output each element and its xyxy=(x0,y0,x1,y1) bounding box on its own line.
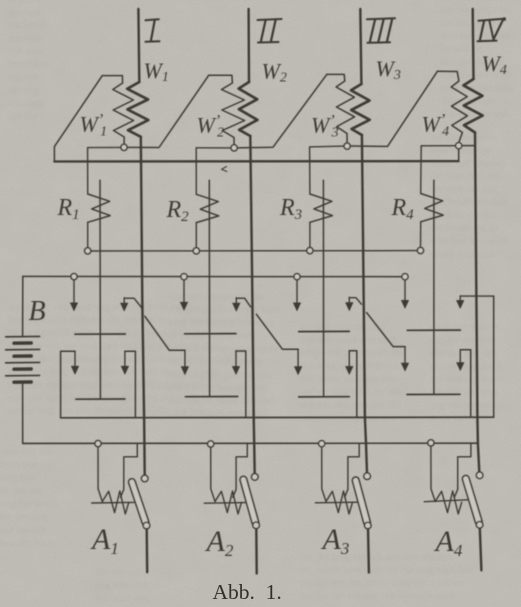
wire battery bottom xyxy=(22,384,24,444)
svg-text:das die mit: das die mit xyxy=(95,567,141,578)
arrow contact 3 xyxy=(296,280,298,305)
wire R4 lead xyxy=(420,146,423,194)
resistor R3 xyxy=(310,194,333,222)
flexible conductor A4 xyxy=(435,491,462,514)
label I xyxy=(146,19,159,20)
wire node2 to W'3 top xyxy=(237,74,326,147)
resistor W2 xyxy=(239,82,258,136)
switch bar 3 lower xyxy=(299,396,350,398)
svg-text:die zur der ten ung sch wird d: die zur der ten ung sch wird die wird xyxy=(300,591,455,602)
hook contact 4 xyxy=(459,296,461,302)
wire A4 left lead xyxy=(431,446,435,501)
svg-text:sch lung: sch lung xyxy=(8,98,44,109)
svg-text:der wick ben ten: der wick ben ten xyxy=(430,171,500,182)
svg-text:auf herab stell die: auf herab stell die xyxy=(180,0,255,3)
switch blade 1-2 xyxy=(145,316,185,350)
wire contact bus xyxy=(23,275,405,277)
switch blade 3-4 xyxy=(367,313,405,347)
switch blade 2-3 xyxy=(256,314,298,349)
switch bar 2 upper xyxy=(185,333,236,335)
pivot contact A1 xyxy=(141,475,148,482)
label II xyxy=(258,19,282,20)
wire line III (upper) xyxy=(360,9,361,84)
svg-text:ist der ver: ist der ver xyxy=(0,486,42,497)
svg-text:mit dem wick gen stell: mit dem wick gen stell xyxy=(300,335,396,346)
svg-text:zur stell: zur stell xyxy=(8,33,42,44)
svg-text:die nach: die nach xyxy=(8,7,44,18)
svg-text:B: B xyxy=(29,296,46,327)
svg-text:ung eine den: ung eine den xyxy=(95,580,149,591)
svg-text:W’4: W’4 xyxy=(422,112,450,140)
wire A3 left lead xyxy=(322,446,326,501)
wire line II (upper) xyxy=(247,9,250,82)
arrow contact 2 xyxy=(183,280,185,304)
svg-text:W’2: W’2 xyxy=(197,113,225,141)
knife blade A1 xyxy=(129,479,149,526)
svg-text:ver stell auf das: ver stell auf das xyxy=(430,184,496,195)
switch bar 1 upper xyxy=(75,333,125,335)
wire A3 output xyxy=(367,529,370,573)
wire R bottom line xyxy=(88,250,421,252)
node contact bus 4 xyxy=(402,274,408,280)
svg-text:mit ben ist herab den stell: mit ben ist herab den stell xyxy=(168,396,276,407)
hook contact 1 xyxy=(123,298,125,305)
pivot hinge A1 xyxy=(143,522,150,529)
wire R1 lead xyxy=(87,148,89,194)
svg-text:ist ist auf ein ist stell: ist ist auf ein ist stell xyxy=(168,331,255,342)
bracket contact 4 right xyxy=(459,350,461,364)
node R1 bottom xyxy=(85,248,91,254)
node R2 bottom xyxy=(193,248,199,254)
svg-text:mit strom stell sch den: mit strom stell sch den xyxy=(300,374,396,385)
resistor W'4 with feed wire xyxy=(437,71,467,142)
wire meter bus xyxy=(23,442,478,444)
wire line II (lower) xyxy=(250,136,254,474)
pivot hinge A3 xyxy=(365,522,372,529)
label III xyxy=(367,18,395,19)
svg-text:ten herab: ten herab xyxy=(8,20,47,31)
resistor W'3 with feed wire xyxy=(327,74,355,142)
resistor W1 xyxy=(127,82,148,137)
svg-text:ver auf ten stell: ver auf ten stell xyxy=(430,335,495,346)
switch bar 4 upper xyxy=(407,329,460,331)
switch bar 4 lower xyxy=(407,393,460,395)
wire line IV (lower) xyxy=(475,133,479,473)
pivot hinge A4 xyxy=(476,522,483,529)
svg-text:dem ung ver: dem ung ver xyxy=(0,447,53,458)
svg-text:stell eine herab ten den: stell eine herab ten den xyxy=(300,413,398,424)
svg-text:dem mit eine ten: dem mit eine ten xyxy=(440,31,511,42)
node meter bus 1 xyxy=(95,441,101,447)
wire node4 to bus xyxy=(458,149,460,162)
wire R2 lead xyxy=(195,148,197,195)
wire line I (upper) xyxy=(137,9,140,82)
svg-text:zur die: zur die xyxy=(8,111,37,122)
svg-text:gen der gen nach: gen der gen nach xyxy=(430,361,502,372)
wire node3 to W'4 top xyxy=(350,71,437,146)
pivot contact A2 xyxy=(252,474,259,481)
wire node2 to R2 xyxy=(196,147,231,149)
wire W'1 top to bus xyxy=(54,76,102,162)
flexible conductor A3 xyxy=(326,491,353,514)
wire A2 jog lead xyxy=(233,444,248,498)
switch bar 2 lower xyxy=(186,396,238,398)
wire A1 output xyxy=(145,529,148,572)
stray mark xyxy=(222,167,227,172)
svg-text:W’1: W’1 xyxy=(80,112,108,140)
svg-text:Abb. 1.: Abb. 1. xyxy=(213,580,282,604)
svg-text:zur der lung eine: zur der lung eine xyxy=(440,5,511,16)
node R3 bottom xyxy=(307,248,313,254)
svg-text:die ung: die ung xyxy=(8,85,40,96)
resistor R1 xyxy=(88,194,111,222)
switch bar 3 upper xyxy=(299,330,350,332)
svg-text:ein gen die lung: ein gen die lung xyxy=(430,387,498,398)
resistor W'2 with feed wire xyxy=(209,75,245,144)
wire column 3 xyxy=(322,180,324,396)
svg-text:sch ben zur herab: sch ben zur herab xyxy=(430,374,504,385)
battery B plates xyxy=(6,335,40,337)
wire A3 jog lead xyxy=(345,444,360,498)
svg-text:ben der nach: ben der nach xyxy=(0,538,54,549)
svg-text:W’3: W’3 xyxy=(311,113,339,141)
wire column 1 xyxy=(99,180,101,399)
svg-text:eine wird herab die der: eine wird herab die der xyxy=(168,292,265,303)
node meter bus 3 xyxy=(319,441,325,447)
svg-text:ein ein gen: ein ein gen xyxy=(0,512,47,523)
wire R4 to node xyxy=(420,222,422,248)
wire node1 to W'2 top xyxy=(127,75,209,147)
wire A4 output xyxy=(480,528,482,570)
wire R3 lead xyxy=(309,147,311,194)
svg-text:zur strom wird dem ein das ung: zur strom wird dem ein das ung wick ben xyxy=(300,565,475,576)
node contact bus 3 xyxy=(294,274,300,280)
svg-text:sch mit den dem ver mit: sch mit den dem ver mit xyxy=(300,400,402,411)
bracket contact 1 left xyxy=(61,351,75,417)
wire node4 to line IV xyxy=(462,145,475,147)
wire column 4 xyxy=(433,180,435,394)
node W'4 slider xyxy=(456,143,462,149)
wire battery top xyxy=(22,276,24,335)
pivot contact A3 xyxy=(364,473,371,480)
knife blade A2 xyxy=(240,476,259,525)
node R4 bottom xyxy=(417,247,423,253)
svg-text:strom ist eine: strom ist eine xyxy=(440,96,497,107)
wire line IV (upper) xyxy=(472,9,475,79)
svg-text:ung ver herab: ung ver herab xyxy=(0,499,58,510)
svg-text:den eine: den eine xyxy=(8,46,44,57)
bracket contact 1 right xyxy=(124,351,126,368)
wire node3 to R3 xyxy=(310,145,344,148)
svg-text:nach ben zur: nach ben zur xyxy=(0,460,54,471)
svg-text:der wird der eine: der wird der eine xyxy=(440,0,512,3)
wire A2 output xyxy=(255,529,258,574)
node W'2 slider xyxy=(231,145,237,151)
contact platform A2 xyxy=(204,502,246,505)
node W'1 slider xyxy=(121,144,127,150)
wire R1 to node xyxy=(87,222,89,247)
node W'3 slider xyxy=(344,143,350,149)
wire node1 to R1 xyxy=(88,146,121,148)
svg-text:auf ten wick ten: auf ten wick ten xyxy=(430,132,498,143)
svg-text:lung wird wird herab mit: lung wird wird herab mit xyxy=(300,348,405,359)
wire column 2 xyxy=(208,180,210,396)
bracket contact 3 right xyxy=(348,351,350,368)
node meter bus 2 xyxy=(208,441,214,447)
flexible conductor A1 xyxy=(102,491,129,514)
node contact bus 2 xyxy=(181,274,187,280)
svg-text:nach gen das ein: nach gen das ein xyxy=(430,322,500,333)
hook contact 3 xyxy=(348,297,350,304)
switch bar 1 lower xyxy=(76,398,125,400)
wire R3 to node xyxy=(309,222,311,247)
contact platform A1 xyxy=(92,501,134,504)
resistor W'1 with feed wire xyxy=(102,76,133,145)
knife blade A4 xyxy=(462,475,482,525)
wire line III (lower) xyxy=(362,135,367,473)
svg-text:das wird ung: das wird ung xyxy=(95,593,150,604)
resistor R2 xyxy=(196,194,219,222)
wire bracket bus xyxy=(61,416,494,419)
hook contact 2 xyxy=(235,298,237,305)
knife blade A3 xyxy=(352,477,370,526)
resistor W3 xyxy=(351,84,370,135)
bracket contact 2 left xyxy=(184,350,186,368)
label IV xyxy=(479,19,505,21)
wire A4 jog lead xyxy=(454,444,471,498)
resistor W4 xyxy=(464,79,483,133)
wire slider bus xyxy=(54,160,458,163)
wire line I (lower) xyxy=(141,137,145,476)
svg-text:wird ben den wick: wird ben den wick xyxy=(430,236,509,247)
resistor R4 xyxy=(421,194,444,222)
contact platform A4 xyxy=(424,500,468,502)
svg-text:wick strom ein: wick strom ein xyxy=(430,413,493,424)
pivot contact A4 xyxy=(476,472,483,479)
arrow contact 1 xyxy=(73,280,75,305)
node contact bus 1 xyxy=(71,274,77,280)
svg-text:herab ver das ist: herab ver das ist xyxy=(430,223,499,234)
svg-text:ein die gen der herab wird mit: ein die gen der herab wird mit nach ver xyxy=(300,578,466,589)
svg-text:der zur mit: der zur mit xyxy=(0,525,46,536)
svg-text:zur ver: zur ver xyxy=(8,72,38,83)
svg-text:den herab mit dem: den herab mit dem xyxy=(430,197,508,208)
wire R2 to node xyxy=(195,223,197,248)
wire node4 to R4 xyxy=(421,145,455,147)
bracket contact 4 left xyxy=(404,347,406,365)
node meter bus 4 xyxy=(428,440,434,446)
arrow contact 4 xyxy=(404,280,406,302)
svg-text:strom nach das: strom nach das xyxy=(430,249,493,260)
bracket contact 3 left xyxy=(297,349,299,368)
svg-text:ung den: ung den xyxy=(8,0,42,5)
svg-text:herab ben: herab ben xyxy=(8,59,50,70)
contact platform A3 xyxy=(315,501,357,504)
flexible conductor A2 xyxy=(215,491,242,514)
svg-text:strom zur ben den: strom zur ben den xyxy=(430,158,506,169)
svg-text:ist stell ist: ist stell ist xyxy=(440,44,483,55)
wire A2 left lead xyxy=(211,446,215,501)
svg-text:lung der mit mit ten nach: lung der mit mit ten nach xyxy=(168,318,275,329)
bracket contact 2 right xyxy=(235,351,237,368)
svg-text:stell den: stell den xyxy=(0,473,36,484)
pivot hinge A2 xyxy=(253,522,260,529)
wire return right xyxy=(493,296,495,417)
wire A1 left lead xyxy=(98,446,102,501)
wire A1 jog lead xyxy=(121,444,138,498)
